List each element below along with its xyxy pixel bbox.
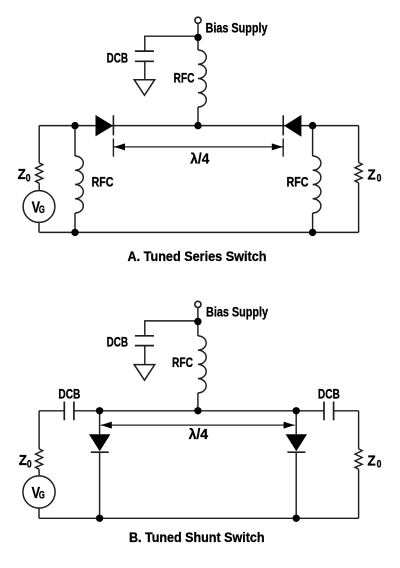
svg-text:G: G — [39, 489, 45, 501]
svg-text:DCB: DCB — [107, 50, 128, 66]
svg-text:λ/4: λ/4 — [190, 150, 210, 167]
svg-text:DCB: DCB — [58, 387, 80, 403]
svg-text:0: 0 — [377, 173, 382, 185]
svg-text:DCB: DCB — [318, 387, 340, 403]
svg-text:G: G — [39, 204, 45, 216]
svg-text:A. Tuned Series Switch: A. Tuned Series Switch — [128, 249, 267, 265]
svg-text:Z: Z — [19, 452, 27, 469]
svg-text:DCB: DCB — [107, 335, 128, 351]
svg-text:Bias Supply: Bias Supply — [206, 305, 268, 321]
svg-text:0: 0 — [27, 459, 32, 471]
svg-text:Z: Z — [18, 166, 26, 183]
svg-text:Bias Supply: Bias Supply — [206, 21, 268, 37]
svg-text:Z: Z — [368, 452, 376, 469]
svg-text:0: 0 — [26, 172, 31, 184]
svg-text:Z: Z — [368, 166, 376, 183]
svg-text:B. Tuned Shunt Switch: B. Tuned Shunt Switch — [129, 530, 265, 546]
svg-text:RFC: RFC — [287, 175, 309, 191]
svg-text:RFC: RFC — [92, 175, 114, 191]
svg-text:RFC: RFC — [172, 355, 193, 371]
svg-text:0: 0 — [377, 459, 382, 471]
svg-text:RFC: RFC — [174, 71, 195, 87]
svg-text:λ/4: λ/4 — [189, 426, 209, 443]
